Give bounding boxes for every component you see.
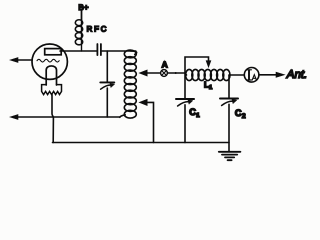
svg-text:2: 2 — [242, 113, 246, 120]
wire node to C1 — [184, 73, 186, 98]
wire C2 branch — [228, 75, 230, 98]
svg-text:C: C — [235, 108, 242, 118]
svg-text:1: 1 — [196, 112, 200, 119]
svg-text:B+: B+ — [78, 3, 89, 12]
label IA — [247, 70, 257, 80]
capacitor tank tuning branch top — [106, 51, 108, 82]
wire filament center tap — [52, 94, 53, 142]
meter IA — [244, 68, 259, 83]
wire cap to coil — [102, 50, 136, 52]
choke RFC — [75, 11, 82, 52]
wire tap upper to lamp — [146, 72, 161, 74]
ground — [219, 152, 241, 160]
svg-text:A: A — [162, 60, 168, 70]
capacitor C2 — [220, 99, 238, 152]
tube V1 filament heater — [42, 85, 62, 95]
tap upper arrow — [139, 70, 147, 76]
wire lamp to node — [167, 72, 185, 74]
wire lower left with arrow — [13, 116, 120, 118]
wire plate to tank top — [60, 50, 96, 52]
coil tank — [120, 50, 137, 118]
junction dot — [175, 72, 177, 74]
arrow filament line — [10, 115, 18, 120]
wire grid input — [13, 59, 32, 61]
wire meter to antenna — [259, 74, 278, 76]
svg-text:RFC: RFC — [87, 25, 109, 34]
tube V1 plate — [45, 49, 62, 55]
wire tap lower — [146, 102, 154, 142]
lamp A — [161, 70, 168, 77]
svg-text:Ant.: Ant. — [286, 69, 307, 81]
tube V1 envelope — [32, 44, 67, 79]
arrow antenna — [276, 72, 285, 77]
capacitor tank tuning — [100, 82, 114, 117]
svg-text:1: 1 — [209, 85, 213, 91]
node B+ lead — [81, 11, 83, 21]
coil L1 — [185, 69, 230, 80]
wire L1 to meter — [229, 74, 244, 76]
tap link L1 — [185, 57, 211, 73]
svg-text:C: C — [189, 107, 196, 117]
tube V1 grid — [37, 59, 59, 62]
tap lower arrow — [139, 99, 147, 105]
tube V1 cathode loop — [46, 66, 56, 85]
arrow grid input — [10, 58, 18, 63]
capacitor blocking — [97, 44, 101, 55]
wire bottom bus — [53, 142, 230, 144]
capacitor C1 — [176, 99, 194, 143]
